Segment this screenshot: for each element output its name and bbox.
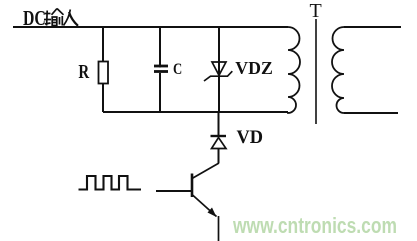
wire VD branch lower (218, 149, 220, 164)
square wave source (79, 176, 142, 190)
wire VDZ branch (218, 27, 220, 112)
svg-text:www.cntronics.com: www.cntronics.com (232, 213, 397, 238)
wire bottom horizontal bus (103, 111, 288, 113)
transformer T primary winding (288, 27, 300, 113)
zener diode VDZ (204, 62, 232, 81)
svg-text:VDZ: VDZ (235, 58, 272, 78)
svg-text:R: R (78, 61, 89, 83)
svg-text:VD: VD (237, 127, 264, 148)
resistor R (99, 62, 109, 84)
label 输 (drawn strokes) (44, 9, 64, 26)
diode VD (211, 136, 227, 149)
transformer T secondary winding (332, 27, 344, 113)
wire secondary bottom (344, 112, 398, 114)
wire R branch upper (102, 27, 104, 62)
transformer core (315, 19, 317, 124)
emitter arrowhead (208, 208, 217, 218)
base lead (156, 190, 192, 192)
wire C branch upper (159, 27, 161, 68)
wire VD branch upper (218, 112, 220, 135)
transistor Q1 (156, 163, 219, 241)
svg-text:DC: DC (23, 6, 46, 30)
wire secondary top (344, 26, 401, 28)
wire C branch lower (159, 73, 161, 112)
label 入 (drawn strokes) (64, 10, 79, 26)
wire R branch lower (102, 83, 104, 112)
svg-text:T: T (310, 0, 322, 22)
collector lead (192, 163, 219, 179)
wire top horizontal bus (13, 26, 288, 28)
base bar (191, 174, 194, 198)
emitter vertical wire (218, 216, 220, 241)
emitter lead (192, 195, 217, 217)
capacitor C (154, 66, 168, 72)
svg-text:C: C (173, 61, 182, 78)
